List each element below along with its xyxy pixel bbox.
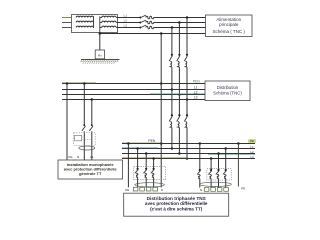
- node: tap right group pole 4: [224, 147, 227, 150]
- wire PEN from transformer neutral to main supply box: [100, 33, 206, 35]
- svg-text:PEN: PEN: [193, 80, 200, 84]
- wire L1 drop upper: [91, 100, 93, 126]
- svg-text:principale: principale: [219, 22, 239, 27]
- wire busbar PEN: [62, 83, 205, 85]
- node: tap left group pole 2: [145, 152, 148, 155]
- switch-fuse Q1: [139, 15, 153, 19]
- node: L1 tap on busbar L3: [91, 98, 94, 101]
- node: junction on distribution busbar x=171.9: [171, 88, 174, 91]
- breaker pole left group 3: [151, 168, 155, 178]
- node: junction bottom busbar x=187.0: [186, 157, 189, 160]
- wire left group pole 3 upper: [153, 159, 155, 169]
- wire bottom busbar L (teal right): [122, 153, 255, 155]
- wire HV input stub phase 2: [62, 22, 76, 24]
- box: Distribution (Schema TNC): [205, 81, 250, 101]
- wire busbar to breaker Q9: [186, 100, 188, 116]
- breaker Q9: [184, 114, 188, 127]
- node: tap right group pole 3: [217, 152, 220, 155]
- node: tap right group pole 2: [210, 157, 213, 160]
- node: tap left group pole 1: [136, 147, 139, 150]
- wire N through toroid: [83, 131, 85, 160]
- node: transformer neutral point: [99, 32, 102, 35]
- wire busbar to breaker Q7: [171, 90, 173, 116]
- breaker Q6: [184, 54, 188, 67]
- svg-text:L1: L1: [124, 13, 128, 17]
- wire bottom busbar L olive: [122, 158, 255, 160]
- toroid (current sensor) right group: [199, 182, 231, 186]
- differential block outline right group (dashed): [207, 169, 231, 180]
- svg-text:PE: PE: [68, 155, 72, 159]
- switch-fuse Q2: [139, 20, 153, 24]
- wire right group pole 1 lower: [199, 179, 201, 188]
- breaker pole (differential) L1: [89, 124, 93, 131]
- breaker pole right group 3: [216, 169, 220, 179]
- differential relay enclosure (dashed): [74, 133, 96, 146]
- svg-text:PE: PE: [250, 139, 254, 143]
- wire N pole through differential block (left group): [160, 144, 162, 188]
- node: junction on distribution busbar x=187.0: [186, 98, 189, 101]
- switch-fuse Q3: [139, 25, 153, 29]
- svg-text:générale TT: générale TT: [79, 171, 102, 176]
- svg-text:Rn: Rn: [98, 53, 102, 57]
- label PE (bottom busbar, highlighted): [248, 139, 256, 143]
- terminal sockets right group: [204, 188, 228, 192]
- wire phase feeder drop x=179.4 upper: [178, 23, 180, 55]
- wire L2 switch to main supply box: [154, 22, 206, 24]
- wire right group pole 3 upper: [218, 154, 220, 171]
- wire L3 switch to main supply box: [154, 27, 206, 29]
- wire bottom busbar N (left teal): [122, 148, 255, 150]
- wire HV input stub phase 1: [62, 17, 76, 19]
- svg-text:N: N: [77, 155, 79, 159]
- node: PE tap on busbar PEN: [66, 82, 69, 85]
- wire left group pole 1 lower: [137, 177, 139, 187]
- svg-text:L3: L3: [124, 23, 128, 27]
- node: phase tap at (187.0,17.5): [186, 16, 189, 19]
- svg-text:avec protection différentielle: avec protection différentielle: [145, 201, 208, 206]
- wire right group pole 2 lower: [210, 179, 212, 188]
- wire right group pole 2 upper: [210, 159, 212, 171]
- breaker Q8: [177, 114, 181, 127]
- wire phase feeder drop x=171.9 upper: [171, 28, 173, 55]
- wire PEN feeder drop (to distribution busbar): [160, 34, 162, 84]
- wire breaker Q9 to bottom busbar: [186, 128, 188, 159]
- svg-text:L2: L2: [124, 18, 128, 22]
- toroid (current sensor) left group: [135, 183, 165, 187]
- box: Distribution triphasee TNS avec protection differentielle: [124, 193, 229, 216]
- svg-text:L3: L3: [250, 155, 254, 159]
- svg-text:(c'est à dire schéma TT): (c'est à dire schéma TT): [150, 206, 203, 211]
- box: Installation monophasee avec protection differentielle generale TT: [58, 160, 123, 179]
- svg-text:PEN: PEN: [148, 139, 155, 143]
- svg-text:L2: L2: [194, 91, 198, 95]
- wire: earthing conductor from neutral: [99, 34, 101, 51]
- wire HV input stub phase 3: [62, 27, 76, 29]
- svg-text:Schéma (TNC): Schéma (TNC): [213, 90, 242, 95]
- breaker pole right group 1: [197, 169, 201, 179]
- wire left group pole 1 upper: [137, 149, 139, 169]
- svg-text:N: N: [161, 188, 163, 192]
- wire L1 switch to main supply box: [154, 17, 206, 19]
- svg-text:L3: L3: [194, 96, 198, 100]
- wire L3 transformer to switch Q3: [118, 27, 140, 29]
- svg-text:L1: L1: [90, 155, 94, 159]
- box: Alimentation principale (Schema TNC): [206, 15, 253, 37]
- wire L1 through toroid: [91, 131, 93, 160]
- breaker Q7: [169, 114, 173, 127]
- node: phase tap at (171.9,27.5): [171, 26, 174, 29]
- ground (earth electrode): [81, 60, 120, 64]
- wire N drop upper: [83, 84, 85, 126]
- wire breaker Q6 to busbar: [186, 67, 188, 99]
- wire left group pole 2 lower: [145, 177, 147, 187]
- breaker pole right group 2: [208, 169, 212, 179]
- wire left group pole 3 lower: [153, 177, 155, 187]
- breaker Q5: [177, 54, 181, 67]
- node: junction bottom busbar x=179.4: [178, 152, 181, 155]
- node: junction bottom busbar x=171.9: [171, 147, 174, 150]
- wire right group pole 3 lower: [218, 179, 220, 188]
- node: N tap on busbar PEN: [83, 82, 86, 85]
- svg-text:L2: L2: [250, 150, 254, 154]
- svg-text:L1: L1: [250, 145, 254, 149]
- breaker pole left group 2: [144, 168, 148, 178]
- transformer T1 (delta-wye): [72, 15, 118, 34]
- node: junction on distribution busbar x=179.4: [178, 93, 181, 96]
- svg-text:L1: L1: [194, 86, 198, 90]
- wire L1 transformer to switch Q1: [118, 17, 140, 19]
- wire bottom busbar PE: [122, 143, 255, 145]
- wire phase feeder drop x=187.0 upper: [186, 18, 188, 55]
- svg-text:Schéma ( TNC ): Schéma ( TNC ): [212, 29, 245, 34]
- svg-text:N: N: [200, 188, 202, 192]
- wire breaker Q4 to busbar: [171, 67, 173, 89]
- svg-text:PE: PE: [241, 186, 245, 190]
- breaker pole (differential) N: [82, 124, 86, 131]
- differential relay coil: [75, 135, 92, 141]
- wire breaker Q5 to busbar: [178, 67, 180, 94]
- wire busbar to breaker Q8: [178, 95, 180, 116]
- wire right group pole 4 lower: [225, 179, 227, 188]
- resistor Rn (earth resistance): [95, 50, 104, 59]
- breaker pole left group 1: [135, 168, 139, 178]
- wire busbar L2: [62, 94, 205, 96]
- breaker pole right group 4: [223, 169, 227, 179]
- wire breaker Q8 to bottom busbar: [178, 128, 180, 154]
- node: PE tap (left group): [127, 142, 130, 145]
- wire right group pole 1 upper: [199, 144, 201, 171]
- wire left group pole 2 upper: [145, 154, 147, 169]
- wire busbar L3: [62, 99, 205, 101]
- toroid (current sensor) single-phase: [79, 146, 95, 150]
- svg-text:PE: PE: [125, 188, 129, 192]
- node: phase tap at (179.4,22.5): [178, 21, 181, 24]
- terminal sockets left group: [133, 187, 157, 191]
- wire PEN drop continues to sub-distribution: [160, 84, 162, 144]
- node: PEN tap on main feeder: [160, 32, 163, 35]
- breaker Q4: [169, 54, 173, 67]
- differential block outline left group: [134, 167, 166, 180]
- wire right group pole 4 upper: [225, 149, 227, 171]
- wire PE drop to single-phase installation: [66, 84, 68, 161]
- node: tap left group pole 3: [152, 157, 155, 160]
- wire PE conductor left group: [127, 144, 129, 188]
- node: PEN junction on busbar: [160, 82, 163, 85]
- wire L2 transformer to switch Q2: [118, 22, 140, 24]
- node: tap right group pole 1: [199, 142, 202, 145]
- node: PEN junction bottom busbar: [160, 142, 163, 145]
- node: PE tap right: [237, 142, 240, 145]
- wire breaker Q7 to bottom busbar: [171, 128, 173, 149]
- wire busbar L1: [62, 89, 205, 91]
- wire PE conductor right group: [237, 144, 239, 187]
